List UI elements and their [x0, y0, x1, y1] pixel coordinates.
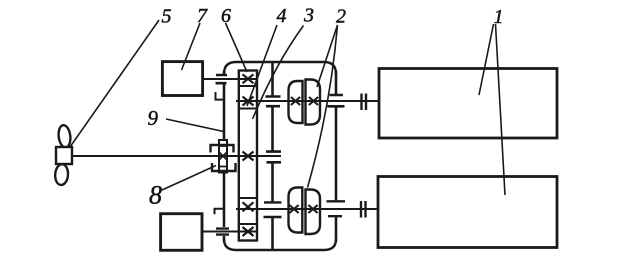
svg-text:1: 1	[494, 6, 504, 28]
leader 7	[182, 23, 201, 70]
rolling bearing X bottom engine shaft	[243, 202, 254, 211]
leader 2 to top coupling	[317, 25, 338, 87]
bearing right wall bottom shaft	[327, 201, 346, 216]
fluid coupling bottom, right half	[306, 190, 321, 235]
fluid coupling bottom, left half	[289, 188, 303, 233]
coupling 8 outer bottom bracket	[212, 163, 236, 171]
leader 1 to top engine	[479, 24, 494, 95]
rolling bearing X bottom PTO	[243, 227, 254, 236]
X in top coupling left	[291, 97, 300, 105]
bracket notch 9 upper	[216, 92, 225, 100]
bearing column	[239, 71, 257, 241]
bearing right wall top shaft	[328, 95, 345, 106]
elastic coupling bottom engine	[361, 201, 366, 218]
PTO box bottom	[161, 214, 202, 251]
rolling bearing X top PTO	[243, 74, 254, 83]
leader 6	[226, 23, 248, 72]
X in bottom coupling left	[289, 205, 298, 213]
X in bottom coupling right	[308, 205, 317, 213]
leader 4	[247, 25, 277, 106]
svg-text:5: 5	[162, 6, 172, 28]
leader 9	[166, 119, 224, 132]
fluid coupling top, left half	[289, 81, 303, 123]
svg-text:4: 4	[277, 5, 287, 27]
housing left wall	[223, 71, 226, 241]
svg-text:2: 2	[336, 6, 346, 28]
bracket notch lower	[215, 209, 225, 214]
propeller bottom blade	[54, 164, 68, 186]
top PTO shaft	[203, 78, 257, 80]
svg-text:9: 9	[148, 106, 159, 130]
column dividers	[239, 86, 257, 224]
engine 1 top box	[379, 69, 557, 139]
bearing wall-left top (plain bearing at top PTO shaft)	[216, 75, 228, 83]
bottom PTO shaft	[202, 231, 257, 233]
rolling bearing X top engine shaft	[243, 97, 254, 106]
PTO box 7 top	[162, 62, 202, 96]
bearing wall-left bottom (plain bearing at bottom PTO shaft)	[216, 229, 229, 235]
leader 3	[253, 26, 304, 120]
housing right wall	[335, 71, 338, 241]
svg-text:7: 7	[197, 5, 208, 27]
svg-text:6: 6	[221, 5, 231, 27]
propeller top blade	[57, 124, 71, 148]
coupling 8 X	[220, 153, 227, 160]
svg-text:8: 8	[149, 181, 162, 210]
elastic coupling top engine	[362, 94, 367, 111]
leader 5	[70, 20, 159, 147]
coupling 8 inner sleeve	[219, 140, 227, 173]
propeller shaft	[72, 155, 281, 157]
X in top coupling right	[309, 97, 318, 105]
leader 8	[162, 166, 216, 191]
inner wall	[271, 62, 274, 250]
gearbox housing	[224, 62, 336, 250]
top engine shaft	[236, 100, 379, 102]
propeller hub	[56, 147, 72, 164]
bearing inner wall bottom shaft	[264, 202, 282, 217]
svg-text:3: 3	[303, 5, 314, 27]
leader 1 to bottom engine	[496, 24, 506, 195]
engine 1 bottom box	[378, 177, 557, 248]
bottom engine shaft	[236, 208, 378, 210]
coupling 8 outer top bracket	[211, 145, 234, 153]
bearing inner wall centre shaft	[266, 152, 281, 163]
fluid coupling top, right half	[306, 80, 321, 125]
bearing inner wall top shaft	[266, 97, 281, 107]
leader 2 to bottom coupling	[308, 25, 338, 188]
coupling 8 inner lines	[219, 146, 227, 167]
rolling bearing X centre shaft	[243, 152, 254, 161]
